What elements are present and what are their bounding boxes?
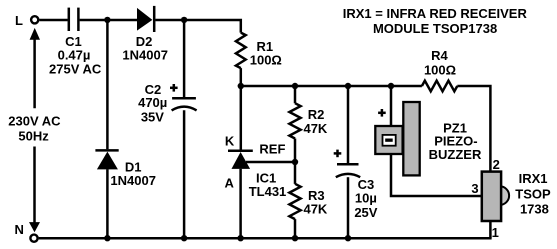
wire IRX1 pin1 lead <box>489 221 492 238</box>
label PZ1 value <box>429 120 482 162</box>
node top of C2 branch <box>181 17 187 23</box>
svg-text:47K: 47K <box>303 121 327 136</box>
IR receiver IRX1 bump <box>491 186 510 205</box>
svg-text:1N4007: 1N4007 <box>110 173 156 188</box>
svg-text:2: 2 <box>493 157 500 172</box>
label 230V AC 50Hz <box>8 114 61 144</box>
node C3 bottom junction <box>345 235 351 241</box>
svg-text:470µ: 470µ <box>138 95 167 110</box>
wire C3 bottom lead <box>347 177 350 238</box>
wire TL431 anode lead <box>239 169 242 239</box>
node top of D1 branch <box>104 17 110 23</box>
svg-text:35V: 35V <box>141 109 164 124</box>
wire buzzer to IRX1 pin3 <box>391 154 482 196</box>
wire REF <box>246 161 295 164</box>
resistor R1 <box>236 33 246 68</box>
svg-text:R2: R2 <box>308 107 325 122</box>
capacitor C1 <box>69 8 79 31</box>
resistor R2 <box>289 103 300 138</box>
svg-text:25V: 25V <box>354 205 377 220</box>
piezo buzzer PZ1 <box>375 102 419 175</box>
wire R4 to IRX1 pin2 <box>457 86 490 172</box>
plus sign C3 <box>334 150 342 158</box>
label D1 value <box>110 159 156 188</box>
svg-text:L: L <box>15 13 23 28</box>
wire R1 to middle rail <box>240 68 243 86</box>
svg-text:50Hz: 50Hz <box>18 129 49 144</box>
svg-text:R4: R4 <box>431 48 448 63</box>
svg-text:3: 3 <box>471 181 478 196</box>
svg-text:100Ω: 100Ω <box>424 63 456 78</box>
node D1 bottom junction <box>104 235 110 241</box>
svg-text:10µ: 10µ <box>355 191 377 206</box>
node C2 bottom junction <box>181 235 187 241</box>
label C3 value <box>354 177 377 220</box>
wire C3 top lead <box>347 86 350 163</box>
node R3 bottom junction <box>292 235 298 241</box>
label IRX1 value <box>515 171 551 217</box>
wire D1 branch upper <box>106 20 109 149</box>
wire D2 to R1 corner <box>155 20 240 33</box>
label D2 value <box>122 34 168 63</box>
label C1 value <box>49 34 102 76</box>
label IC1 value <box>249 171 287 199</box>
svg-text:N: N <box>15 222 24 237</box>
arrow to L terminal <box>30 28 40 108</box>
wire buzzer top lead <box>390 86 393 127</box>
svg-text:R3: R3 <box>308 188 325 203</box>
svg-text:1: 1 <box>492 225 499 240</box>
label R3 value <box>303 188 327 217</box>
svg-text:REF: REF <box>259 142 285 157</box>
wire TL431 cathode lead <box>240 86 243 150</box>
resistor R3 <box>289 184 300 219</box>
svg-text:TSOP: TSOP <box>515 186 551 201</box>
svg-text:1738: 1738 <box>520 202 549 217</box>
terminal N <box>30 235 37 242</box>
wire L to C1 <box>39 19 67 22</box>
svg-text:K: K <box>225 133 235 148</box>
svg-text:0.47µ: 0.47µ <box>58 47 91 62</box>
TL431 IC1 <box>228 151 253 169</box>
node R2 top junction <box>292 83 298 89</box>
node R1 junction <box>238 83 244 89</box>
node REF junction <box>292 159 298 165</box>
IR receiver IRX1 body <box>482 172 501 221</box>
capacitor C3 <box>336 164 360 177</box>
svg-text:TL431: TL431 <box>249 184 287 199</box>
arrow to N terminal <box>29 147 40 233</box>
svg-text:A: A <box>225 176 235 191</box>
svg-text:BUZZER: BUZZER <box>429 147 482 162</box>
diode D2 <box>137 6 154 32</box>
wire C1 to D2 <box>80 19 138 22</box>
wire C2 branch upper <box>183 20 186 97</box>
plus sign C2 <box>170 84 178 92</box>
label R4 value <box>424 48 456 78</box>
node buzzer top junction <box>388 83 394 89</box>
label R1 value <box>250 39 282 68</box>
wire D1 branch lower <box>106 169 109 238</box>
svg-text:IRX1 = INFRA RED RECEIVER: IRX1 = INFRA RED RECEIVER <box>343 6 528 21</box>
svg-text:IRX1: IRX1 <box>519 171 548 186</box>
label C2 value <box>138 82 167 124</box>
svg-text:230V AC: 230V AC <box>8 114 61 129</box>
plus sign buzzer <box>378 109 386 117</box>
node TL431 bottom junction <box>237 235 243 241</box>
wire bottom rail <box>39 237 492 240</box>
wire R3 bottom lead <box>294 219 297 238</box>
diode D1 <box>95 150 118 169</box>
wire C2 branch lower <box>183 110 186 238</box>
node C3 top junction <box>345 83 351 89</box>
capacitor C2 <box>172 98 197 110</box>
wire R2 top lead <box>294 86 297 103</box>
svg-text:275V AC: 275V AC <box>49 61 102 76</box>
resistor R4 <box>422 81 457 92</box>
svg-text:47K: 47K <box>303 202 327 217</box>
terminal L <box>31 16 38 23</box>
svg-text:1N4007: 1N4007 <box>122 48 168 63</box>
svg-text:100Ω: 100Ω <box>250 52 282 67</box>
wire R2 to R3 <box>294 139 297 184</box>
label R2 value <box>303 107 327 136</box>
note IRX1 header <box>343 6 528 36</box>
wire middle rail left <box>241 85 422 88</box>
svg-text:MODULE TSOP1738: MODULE TSOP1738 <box>373 21 497 36</box>
